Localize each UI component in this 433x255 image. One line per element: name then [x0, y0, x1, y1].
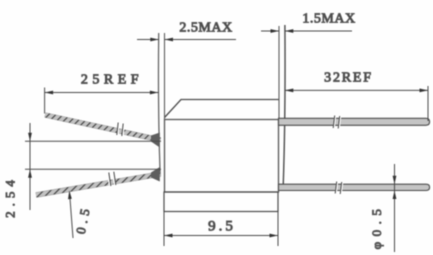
body top outline with left chamfer	[165, 100, 279, 118]
body right edge extension	[278, 26, 280, 120]
dimension phi 0.5 (right)	[393, 164, 397, 252]
dimension 9.5	[164, 212, 278, 247]
svg-text:32REF: 32REF	[324, 71, 373, 86]
break mark lower-left lead	[108, 172, 115, 186]
svg-text:2.54: 2.54	[3, 175, 18, 218]
svg-text:2.5MAX: 2.5MAX	[179, 21, 232, 36]
body bottom band	[164, 192, 278, 212]
upper-right lead	[279, 118, 430, 125]
dimension 2.54	[25, 123, 161, 210]
break mark upper-left lead	[118, 123, 125, 137]
svg-text:1.5MAX: 1.5MAX	[302, 12, 355, 27]
dimension 2.5MAX	[137, 38, 236, 42]
break mark lower-right lead	[336, 182, 343, 195]
dimension 32REF	[285, 86, 428, 121]
upper-left lead	[45, 115, 161, 140]
lower-right lead	[279, 184, 430, 190]
body right tip line	[283, 25, 285, 186]
lead attach wedge upper	[151, 133, 160, 148]
svg-text:φ0.5: φ0.5	[369, 204, 384, 250]
lower-left lead	[36, 174, 161, 195]
svg-text:0.5: 0.5	[73, 203, 93, 235]
break mark upper-right lead	[334, 116, 341, 129]
body front face	[165, 120, 279, 193]
body left edge extension	[164, 33, 166, 120]
dimension 1.5MAX	[261, 29, 352, 33]
lead attach wedge lower	[151, 167, 160, 182]
svg-text:9.5: 9.5	[208, 219, 236, 235]
dimension 0.5 (lower-left leader)	[68, 191, 73, 239]
svg-text:25REF: 25REF	[81, 73, 143, 88]
dimension 25REF	[45, 88, 159, 114]
body left tip line	[158, 33, 160, 176]
